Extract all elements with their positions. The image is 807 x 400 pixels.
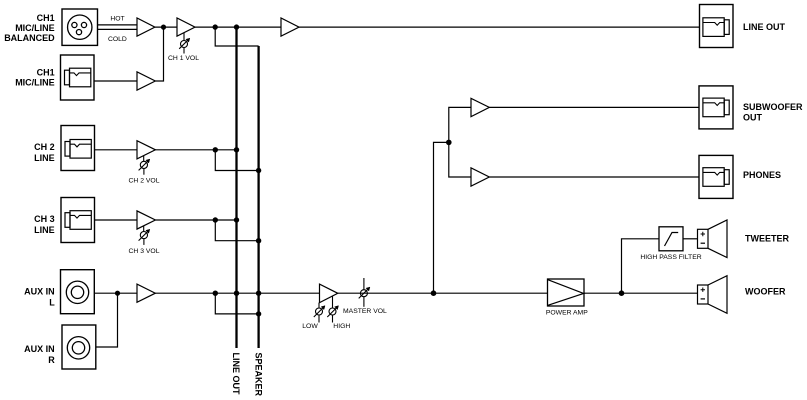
amplifier A6 CH3 gain stage — [137, 211, 155, 229]
node CH3 line out junction — [234, 217, 239, 222]
label CH 2 VOL — [129, 178, 160, 185]
label CH 2 LINE — [34, 142, 55, 163]
svg-text:CH 3 VOL: CH 3 VOL — [129, 248, 160, 255]
svg-text:LINE OUT: LINE OUT — [231, 353, 241, 396]
amplifier A10 phones driver — [471, 168, 489, 186]
wire AUX R riser — [96, 293, 118, 347]
wire to SUBWOOFER OUT connector — [489, 106, 699, 108]
label HIGH — [333, 323, 350, 330]
connector J7 LINE OUT jack — [700, 5, 734, 48]
amplifier A2 CH1 gain stage — [177, 18, 195, 36]
label TWEETER — [745, 234, 789, 244]
label AUX IN R — [24, 344, 55, 365]
connector J8 SUBWOOFER OUT jack — [699, 86, 733, 129]
node AUX line out bus junction — [234, 291, 239, 296]
label HIGH PASS FILTER — [640, 254, 701, 261]
svg-text:CH 3: CH 3 — [34, 214, 55, 224]
svg-text:LOW: LOW — [302, 323, 318, 330]
node sub/phones split — [446, 140, 452, 146]
svg-text:LINE: LINE — [34, 225, 55, 235]
svg-text:AUX IN: AUX IN — [24, 287, 55, 297]
svg-text:PHONES: PHONES — [743, 170, 781, 180]
connector J9 PHONES jack — [699, 155, 733, 198]
wire CH1 mic/line join riser — [155, 27, 163, 81]
wire CH3 to amp — [95, 219, 138, 221]
svg-text:CH1: CH1 — [37, 13, 55, 23]
connector J5 AUX IN L RCA — [61, 270, 95, 314]
svg-text:LINE: LINE — [34, 153, 55, 163]
svg-text:POWER AMP: POWER AMP — [546, 310, 588, 317]
wire CH1 main line — [195, 26, 281, 28]
wire CH1 jog to speaker bus — [215, 27, 258, 46]
label CH 3 LINE — [34, 214, 55, 235]
node CH1 speaker tap — [213, 24, 218, 29]
wire AUX jog to speaker bus — [215, 293, 258, 314]
node CH2 speaker bus junction — [256, 168, 261, 173]
node speaker split — [619, 290, 625, 296]
wire A1 output — [155, 26, 177, 28]
svg-text:MIC/LINE: MIC/LINE — [15, 23, 55, 33]
svg-text:HIGH PASS FILTER: HIGH PASS FILTER — [640, 254, 701, 261]
svg-text:SPEAKER: SPEAKER — [253, 353, 263, 397]
label PHONES — [743, 170, 781, 180]
wire preout feed riser — [434, 142, 449, 293]
high pass filter F1 — [659, 227, 683, 251]
potentiometer MASTER VOL — [359, 278, 370, 307]
amplifier A8 tone stage — [320, 284, 338, 303]
label CH1 MIC/LINE — [15, 68, 55, 88]
wire to subwoofer amp — [449, 107, 471, 142]
label CH 3 VOL — [129, 248, 160, 255]
svg-text:SUBWOOFER: SUBWOOFER — [743, 102, 803, 112]
node preout tap — [431, 290, 437, 296]
node AUX speaker bus junction — [256, 291, 261, 296]
svg-text:AUX IN: AUX IN — [24, 344, 55, 354]
node AUX speaker tap — [213, 291, 218, 296]
amplifier A3 line out driver — [281, 18, 299, 36]
wire CH2 to amp — [95, 149, 138, 151]
svg-text:MIC/LINE: MIC/LINE — [15, 78, 55, 88]
speaker LS2 woofer — [698, 276, 728, 314]
potentiometer HIGH — [327, 296, 338, 322]
wire HOT — [98, 24, 138, 26]
potentiometer CH 1 VOL — [179, 33, 190, 54]
node AUX jog speaker bus junction — [256, 311, 261, 316]
label SPEAKER bus — [253, 353, 263, 397]
label LINE OUT — [743, 22, 786, 32]
connector J4 CH 3 LINE jack — [61, 198, 95, 243]
node CH1 line out tap — [234, 24, 239, 29]
node AUX mix junction — [115, 291, 120, 296]
wire LINE OUT bus — [235, 27, 237, 348]
wire COLD — [98, 28, 138, 30]
amplifier A1 balanced input buffer — [137, 18, 155, 36]
node CH1 mix junction — [161, 25, 166, 30]
svg-text:R: R — [48, 355, 55, 365]
potentiometer CH 2 VOL — [139, 156, 150, 175]
wire to phones amp — [449, 142, 471, 177]
label COLD — [108, 36, 127, 43]
svg-text:OUT: OUT — [743, 112, 763, 122]
connector J6 AUX IN R RCA — [62, 325, 96, 369]
wire AUX L to amp — [94, 292, 137, 294]
svg-text:HOT: HOT — [110, 16, 124, 23]
label WOOFER — [745, 287, 786, 297]
svg-text:COLD: COLD — [108, 36, 127, 43]
svg-text:CH1: CH1 — [37, 68, 55, 78]
node CH2 line out junction — [234, 147, 239, 152]
svg-text:BALANCED: BALANCED — [4, 33, 55, 43]
label CH1 MIC/LINE BALANCED — [4, 13, 55, 43]
wire tone stage to power amp — [338, 292, 548, 294]
node CH3 speaker tap — [213, 217, 218, 222]
amplifier A4 CH1 mic/line buffer — [137, 72, 155, 90]
wire CH2 jog to speaker bus — [215, 150, 258, 171]
label LOW — [302, 323, 318, 330]
label POWER AMP — [546, 310, 588, 317]
potentiometer LOW — [314, 303, 325, 323]
wire power amp output — [584, 292, 698, 294]
svg-text:TWEETER: TWEETER — [745, 234, 789, 244]
amplifier A5 CH2 gain stage — [137, 141, 155, 159]
potentiometer CH 3 VOL — [139, 226, 150, 245]
svg-text:L: L — [49, 298, 55, 308]
connector J1 CH1 MIC/LINE BALANCED XLR — [62, 9, 98, 45]
power amp U1 — [548, 279, 585, 306]
label CH 1 VOL — [168, 55, 199, 62]
svg-text:CH 2: CH 2 — [34, 142, 55, 152]
node CH2 speaker tap — [213, 147, 218, 152]
svg-text:WOOFER: WOOFER — [745, 287, 786, 297]
connector J3 CH 2 LINE jack — [61, 126, 95, 171]
amplifier A9 subwoofer out driver — [471, 98, 489, 116]
label LINE OUT bus — [231, 353, 241, 396]
connector J2 CH1 MIC/LINE jack — [61, 55, 95, 100]
svg-text:HIGH: HIGH — [333, 323, 350, 330]
speaker LS1 tweeter — [698, 220, 728, 258]
svg-text:CH 1 VOL: CH 1 VOL — [168, 55, 199, 62]
wire to LINE OUT connector — [299, 26, 700, 28]
amplifier A7 aux buffer — [137, 284, 155, 302]
wire CH3 jog to speaker bus — [215, 220, 258, 241]
svg-text:MASTER VOL: MASTER VOL — [343, 308, 387, 315]
svg-text:LINE OUT: LINE OUT — [743, 22, 786, 32]
node CH3 speaker bus junction — [256, 238, 261, 243]
wire CH3 to line out bus — [155, 219, 236, 221]
wire CH2 to line out bus — [155, 149, 236, 151]
wire AUX main line — [155, 292, 319, 294]
wire to high pass filter — [622, 239, 660, 293]
label SUBWOOFER OUT — [743, 102, 803, 122]
wire to PHONES connector — [489, 176, 699, 178]
label HOT — [110, 16, 124, 23]
wire CH1 mic/line to amp — [94, 80, 138, 82]
label MASTER VOL — [343, 308, 387, 315]
svg-text:CH 2 VOL: CH 2 VOL — [129, 178, 160, 185]
wire filter to tweeter — [683, 238, 698, 240]
wire SPEAKER bus — [257, 46, 259, 348]
label AUX IN L — [24, 287, 55, 308]
